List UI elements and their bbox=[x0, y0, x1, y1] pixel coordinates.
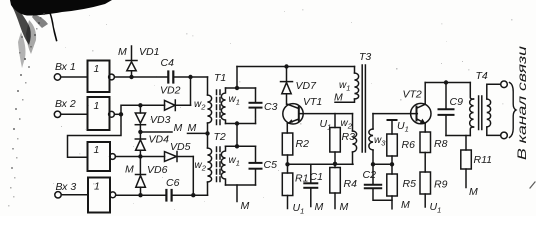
node VD7 bus bbox=[284, 64, 288, 68]
capacitor C5 bbox=[250, 146, 262, 185]
svg-text:Вх 2: Вх 2 bbox=[55, 98, 76, 110]
transformer T2 winding w1 tank bbox=[221, 146, 255, 185]
svg-text:В канал связи: В канал связи bbox=[517, 45, 529, 160]
wire gate1 output row bbox=[115, 76, 168, 78]
logic gate DD3 (1) bbox=[88, 142, 111, 171]
core T4 bbox=[479, 96, 482, 130]
logic gate DD1 (1) bbox=[88, 61, 110, 93]
core T1 bbox=[217, 90, 221, 125]
svg-text:w1: w1 bbox=[229, 155, 240, 168]
svg-text:С6: С6 bbox=[166, 177, 180, 189]
node C9 top bbox=[444, 80, 448, 84]
svg-text:С1: С1 bbox=[310, 171, 323, 183]
wire C2 row bbox=[373, 163, 392, 165]
wire input1 to gate bbox=[61, 76, 88, 78]
node T1/T2 winding junction bbox=[205, 131, 209, 135]
svg-text:VT2: VT2 bbox=[403, 89, 422, 101]
wire VT1 emitter to R2 bbox=[286, 123, 288, 133]
node VD4/VD6/VD5 bbox=[138, 154, 142, 158]
wire stub to М (VD3/VD4 node) bbox=[140, 131, 172, 133]
svg-text:С9: С9 bbox=[450, 96, 464, 108]
diode VD3 bbox=[135, 105, 145, 132]
svg-text:VD7: VD7 bbox=[296, 80, 318, 92]
node R6/R5 bbox=[390, 162, 394, 166]
wire jog up to VD2 row bbox=[121, 105, 165, 114]
wire emitter row bbox=[288, 163, 354, 165]
output terminal top bbox=[501, 81, 508, 88]
resistor R11 bbox=[461, 136, 472, 188]
capacitor C1 bbox=[304, 164, 317, 206]
svg-text:Т2: Т2 bbox=[214, 131, 226, 143]
transistor VT1 bbox=[283, 104, 303, 124]
input terminal 2 bbox=[54, 111, 60, 117]
wire VT2 collector to bus bbox=[424, 83, 426, 105]
node VD6 bottom bbox=[138, 193, 142, 197]
svg-text:R6: R6 bbox=[402, 139, 416, 151]
transformer T3 winding w3 bbox=[369, 114, 373, 165]
node gate2 output bbox=[119, 112, 123, 116]
capacitor C4 bbox=[168, 72, 207, 83]
diode VD4 bbox=[135, 132, 145, 157]
svg-text:R8: R8 bbox=[434, 138, 448, 150]
resistor R2 bbox=[282, 133, 293, 164]
svg-text:U1: U1 bbox=[430, 201, 442, 215]
svg-text:w2: w2 bbox=[341, 118, 353, 131]
svg-text:С3: С3 bbox=[264, 101, 278, 113]
svg-text:R2: R2 bbox=[296, 138, 310, 150]
diode VD2 bbox=[165, 100, 191, 111]
brace output bbox=[510, 83, 517, 138]
gate DD3 output bubble bbox=[110, 154, 116, 160]
diode VD1 bbox=[126, 46, 137, 77]
svg-text:Т4: Т4 bbox=[476, 70, 488, 82]
svg-text:w3: w3 bbox=[374, 135, 386, 148]
wire tank T2 to М bbox=[236, 185, 238, 202]
wire stub М to winding junction bbox=[188, 132, 208, 134]
svg-text:U1: U1 bbox=[397, 120, 409, 134]
input terminal 3 bbox=[55, 192, 61, 198]
svg-text:М: М bbox=[118, 46, 127, 58]
node w3/C2 bbox=[371, 162, 375, 166]
transformer T2 winding w2 bbox=[208, 133, 212, 195]
wire gate2 output bbox=[115, 113, 122, 115]
svg-text:М: М bbox=[401, 199, 410, 211]
gate DD4 output bubble bbox=[110, 192, 116, 198]
wire tank T1 to bus bbox=[236, 67, 238, 89]
svg-text:R9: R9 bbox=[434, 179, 448, 191]
node tank T1 top bbox=[235, 86, 239, 90]
diode VD7 bbox=[281, 67, 293, 105]
wire feedback gate2 to gate3 bbox=[68, 114, 122, 157]
bus wire top bbox=[237, 66, 355, 68]
svg-text:VT1: VT1 bbox=[303, 96, 322, 108]
svg-text:М: М bbox=[174, 122, 183, 134]
svg-text:С2: С2 bbox=[363, 169, 377, 181]
wire VD2 cathode riser bbox=[190, 77, 192, 105]
svg-text:Т1: Т1 bbox=[214, 72, 226, 84]
svg-text:VD1: VD1 bbox=[139, 46, 159, 58]
svg-text:VD2: VD2 bbox=[160, 85, 181, 97]
wire VD5 to C6 node bbox=[192, 157, 194, 196]
node VD3/VD4 bbox=[138, 130, 142, 134]
resistor R1 bbox=[282, 164, 293, 208]
wire T4 tank bottom bbox=[446, 135, 470, 137]
svg-text:U1: U1 bbox=[293, 202, 305, 216]
wire input3 to gate bbox=[62, 194, 89, 196]
svg-text:М: М bbox=[334, 92, 343, 104]
svg-text:VD5: VD5 bbox=[170, 141, 191, 153]
svg-text:1: 1 bbox=[94, 63, 100, 75]
node VD3 top bbox=[138, 103, 142, 107]
node VD1 junction bbox=[129, 75, 133, 79]
diode VD5 bbox=[165, 152, 194, 162]
transformer T1 winding w1 tank bbox=[221, 88, 255, 124]
node tank T2 top bbox=[235, 144, 239, 148]
svg-text:Вх 1: Вх 1 bbox=[55, 61, 76, 73]
resistor R4 bbox=[330, 164, 341, 209]
gate DD2 output bubble bbox=[109, 111, 115, 117]
svg-text:R4: R4 bbox=[344, 178, 358, 190]
output terminal bottom bbox=[501, 132, 508, 139]
svg-text:М: М bbox=[315, 201, 324, 213]
svg-text:VD3: VD3 bbox=[150, 114, 171, 126]
capacitor C2 bbox=[365, 164, 392, 200]
wire gate4 output row bbox=[116, 194, 166, 196]
transistor VT2 bbox=[411, 103, 431, 123]
transformer T3 winding w1 bbox=[335, 67, 359, 103]
logic gate DD4 (1) bbox=[88, 178, 110, 213]
paper speckle texture bbox=[53, 9, 513, 210]
wire VT2 emitter to R8 bbox=[424, 123, 426, 132]
wire gate3 output row bbox=[116, 156, 165, 158]
logic gate DD2 (1) bbox=[88, 97, 110, 130]
gate DD1 output bubble bbox=[109, 74, 115, 80]
svg-text:С5: С5 bbox=[264, 159, 278, 171]
svg-text:М: М bbox=[241, 200, 250, 212]
capacitor C9 bbox=[439, 83, 454, 136]
capacitor C3 bbox=[250, 88, 262, 124]
resistor R3 bbox=[330, 114, 341, 164]
svg-text:w2: w2 bbox=[195, 160, 207, 173]
wire input2 to gate bbox=[61, 113, 88, 115]
capacitor C6 bbox=[166, 190, 207, 201]
svg-text:М: М bbox=[469, 186, 478, 198]
svg-text:1: 1 bbox=[94, 144, 100, 156]
resistor R6 bbox=[387, 120, 398, 164]
svg-text:R11: R11 bbox=[474, 154, 492, 166]
node tank T1 bottom bbox=[235, 121, 239, 125]
core T3 bbox=[362, 65, 365, 152]
svg-text:Т3: Т3 bbox=[359, 51, 371, 63]
svg-text:М: М bbox=[125, 164, 134, 176]
svg-text:R5: R5 bbox=[403, 178, 417, 190]
node C4/VD2 bbox=[188, 75, 192, 79]
resistor R8 bbox=[420, 132, 431, 172]
svg-text:w1: w1 bbox=[229, 94, 240, 107]
scan mark bottom right bbox=[530, 182, 535, 188]
wire VT1 base row bbox=[299, 113, 353, 115]
transformer T4 winding primary bbox=[470, 83, 474, 136]
svg-text:1: 1 bbox=[94, 181, 100, 193]
node R2/R1 bbox=[285, 162, 289, 166]
svg-text:w2: w2 bbox=[194, 99, 206, 112]
svg-text:М: М bbox=[340, 201, 349, 213]
wire tank T1 to tank T2 bbox=[236, 124, 238, 147]
transformer T1 winding w2 bbox=[208, 77, 212, 133]
svg-text:С4: С4 bbox=[161, 57, 175, 69]
resistor R9 bbox=[420, 172, 431, 207]
scan speckle noise left edge bbox=[8, 13, 45, 207]
bus wire VT2/T4 bbox=[425, 82, 470, 84]
resistor R5 bbox=[387, 164, 398, 209]
diode VD6 bbox=[136, 157, 146, 196]
svg-text:М: М bbox=[188, 122, 197, 134]
input terminal 1 bbox=[54, 74, 60, 80]
scan blob top-left corner bbox=[10, 0, 112, 68]
node C6/VD5 bbox=[191, 193, 195, 197]
svg-text:VD6: VD6 bbox=[147, 164, 168, 176]
svg-text:VD4: VD4 bbox=[149, 134, 170, 146]
transformer T3 winding w2 bbox=[353, 114, 357, 165]
transformer T4 winding secondary bbox=[487, 84, 501, 135]
node R3/R4 bbox=[333, 162, 337, 166]
svg-text:1: 1 bbox=[94, 100, 100, 112]
wire w3 to VT2 base bbox=[373, 113, 417, 115]
core T2 bbox=[217, 147, 221, 183]
